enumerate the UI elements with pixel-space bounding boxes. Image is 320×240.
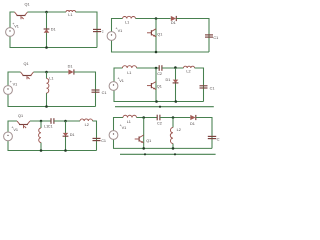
node bottom junction bbox=[45, 105, 48, 108]
wire top rail right + right side bbox=[196, 118, 212, 149]
wire top rail left segment bbox=[10, 12, 15, 28]
wire inductor branch bbox=[40, 121, 42, 151]
node A junction bbox=[40, 120, 43, 123]
label L1 bbox=[127, 120, 131, 124]
capacitor C bbox=[93, 29, 101, 31]
label V1 bbox=[13, 82, 18, 86]
svg-text:V1: V1 bbox=[13, 82, 18, 86]
svg-text:D1: D1 bbox=[190, 122, 195, 126]
label Q1 bbox=[157, 33, 162, 37]
svg-text:D1: D1 bbox=[171, 21, 176, 25]
wire bottom rail bbox=[112, 40, 210, 52]
label + bbox=[120, 123, 123, 127]
label D1 bbox=[51, 28, 56, 32]
wire bottom rail bbox=[8, 94, 96, 106]
label L1 bbox=[127, 71, 131, 75]
label L1 bbox=[68, 13, 72, 17]
wire top rail left segment bbox=[8, 72, 21, 86]
inductor L1 vertical bbox=[47, 79, 49, 94]
wire top rail right + right side bbox=[74, 72, 96, 107]
label D1 bbox=[171, 21, 176, 25]
svg-text:Q1: Q1 bbox=[157, 84, 162, 88]
label V1 bbox=[122, 126, 127, 130]
node A junction bbox=[155, 67, 158, 70]
node B junction bbox=[64, 120, 67, 123]
capacitor C1 output bbox=[93, 138, 101, 140]
label C1 bbox=[48, 125, 53, 129]
label + bbox=[12, 22, 15, 26]
label L2 bbox=[177, 128, 181, 132]
label D1 bbox=[190, 122, 195, 126]
svg-text:Q1: Q1 bbox=[24, 62, 29, 66]
wire top rail mid bbox=[34, 71, 69, 73]
svg-text:L2: L2 bbox=[177, 128, 181, 132]
wire lower bus bbox=[120, 153, 216, 155]
wire diode branch bbox=[65, 121, 67, 151]
label + bbox=[10, 80, 13, 84]
capacitor C1 bbox=[92, 90, 100, 92]
svg-text:Q1: Q1 bbox=[146, 139, 151, 143]
node switch junction bbox=[45, 11, 48, 14]
diode D1 bbox=[44, 29, 50, 33]
transistor Q1 bbox=[17, 121, 30, 128]
svg-text:L1: L1 bbox=[125, 21, 129, 25]
svg-text:L2: L2 bbox=[186, 69, 190, 73]
voltage source V1 bbox=[4, 86, 13, 95]
svg-text:V1: V1 bbox=[13, 128, 18, 132]
inductor L1 bbox=[123, 16, 136, 18]
wire diode branch bbox=[175, 68, 177, 102]
inductor L1 bbox=[123, 66, 137, 68]
wire diode branch bbox=[46, 12, 48, 48]
svg-text:L1: L1 bbox=[127, 120, 131, 124]
label V1 bbox=[118, 29, 123, 33]
wire left side bbox=[114, 68, 123, 82]
inductor L1 bbox=[123, 115, 137, 117]
label C1 bbox=[217, 138, 222, 142]
label L2 bbox=[85, 123, 89, 127]
node switch junction bbox=[142, 116, 145, 119]
wire inductor branch bbox=[46, 72, 48, 107]
capacitor C2 bbox=[157, 115, 160, 121]
capacitor C1 bbox=[200, 86, 208, 88]
label L1 bbox=[125, 21, 129, 25]
svg-text:c: c bbox=[102, 29, 104, 33]
label C1 bbox=[213, 36, 218, 40]
svg-text:V1: V1 bbox=[14, 24, 19, 28]
label C2 bbox=[157, 122, 162, 126]
svg-text:C1: C1 bbox=[48, 125, 53, 129]
inductor L1 bbox=[66, 10, 76, 12]
label D1 bbox=[68, 64, 73, 68]
svg-text:D1: D1 bbox=[166, 78, 171, 82]
wire top rail right + right side bbox=[76, 12, 98, 48]
inductor L2 bbox=[184, 66, 195, 68]
node lower bus junction 2 bbox=[174, 153, 176, 155]
label c bbox=[102, 29, 104, 33]
node bottom junction bbox=[155, 51, 158, 54]
wire bottom rail bbox=[114, 139, 213, 148]
diode D1 bbox=[63, 133, 69, 136]
svg-text:V1: V1 bbox=[118, 29, 123, 33]
node bottom junction L2 bbox=[172, 147, 175, 150]
diode D1 bbox=[173, 80, 179, 83]
label Q1 bbox=[18, 114, 23, 118]
diode D1 bbox=[171, 16, 177, 21]
label C1 bbox=[210, 87, 215, 91]
capacitor C2 bbox=[159, 65, 162, 71]
svg-text:C1: C1 bbox=[210, 87, 215, 91]
wire top rail mid bbox=[28, 11, 67, 13]
voltage source V1 bbox=[109, 131, 118, 140]
svg-text:L2: L2 bbox=[85, 123, 89, 127]
svg-text:V1: V1 bbox=[122, 126, 127, 130]
wire bottom rail bbox=[8, 141, 97, 151]
svg-text:Q1: Q1 bbox=[25, 2, 30, 6]
node bottom junction A bbox=[40, 149, 43, 152]
wire top rail after C2 bbox=[160, 117, 190, 119]
node bottom junction bbox=[45, 46, 48, 49]
label C2 bbox=[157, 72, 162, 76]
label Q1 bbox=[24, 62, 29, 66]
label + bbox=[11, 126, 14, 130]
wire top rail right + right side bbox=[176, 19, 209, 53]
label Q1 bbox=[146, 139, 151, 143]
wire left side bbox=[112, 19, 123, 32]
node inductor junction bbox=[45, 71, 48, 74]
voltage source V1 bbox=[4, 132, 13, 141]
capacitor C1 bbox=[205, 35, 213, 37]
svg-text:D1: D1 bbox=[68, 64, 73, 68]
label V1 bbox=[14, 24, 19, 28]
svg-text:C2: C2 bbox=[157, 122, 162, 126]
svg-text:L1: L1 bbox=[127, 71, 131, 75]
node bottom junction B bbox=[175, 100, 178, 103]
wire top rail to node B bbox=[54, 120, 80, 122]
node bottom junction Q1 bbox=[142, 147, 145, 150]
wire transistor branch bbox=[155, 19, 157, 53]
wire top rail mid bbox=[137, 67, 160, 69]
diode D1 bbox=[190, 115, 196, 120]
wire transistor branch bbox=[155, 68, 157, 102]
svg-text:C1: C1 bbox=[102, 91, 107, 95]
wire left side bbox=[114, 118, 124, 131]
transistor Q1 bbox=[147, 82, 156, 90]
wire top rail mid bbox=[137, 117, 158, 119]
transistor Q1 bbox=[15, 12, 28, 19]
wire top rail right + right side bbox=[195, 68, 204, 102]
wire L2 branch bbox=[172, 118, 174, 149]
svg-text:D1: D1 bbox=[70, 133, 75, 137]
inductor L2 vertical bbox=[170, 128, 173, 144]
label D1 bbox=[70, 133, 75, 137]
wire top rail to node A bbox=[30, 120, 51, 122]
wire lower bus bbox=[115, 106, 214, 108]
label + bbox=[115, 26, 118, 30]
label D1 bbox=[166, 78, 171, 82]
transistor Q1 bbox=[135, 135, 144, 143]
svg-text:V1: V1 bbox=[119, 79, 124, 83]
wire bottom rail bbox=[10, 36, 97, 47]
wire bottom rail bbox=[114, 90, 204, 101]
node bottom junction B bbox=[64, 149, 67, 152]
svg-text:D1: D1 bbox=[51, 28, 56, 32]
svg-text:C1: C1 bbox=[217, 138, 220, 142]
label C1 bbox=[101, 139, 106, 143]
wire top rail mid bbox=[136, 18, 171, 20]
label L1 bbox=[49, 77, 53, 81]
svg-text:L1: L1 bbox=[49, 77, 53, 81]
label L2 bbox=[186, 69, 190, 73]
svg-text:C1: C1 bbox=[213, 36, 218, 40]
svg-text:C2: C2 bbox=[157, 72, 162, 76]
label L1 bbox=[44, 125, 48, 129]
node switch junction bbox=[155, 17, 158, 20]
wire top rail left segment bbox=[8, 121, 17, 132]
node B junction bbox=[174, 66, 177, 69]
voltage source V1 bbox=[109, 82, 118, 91]
label V1 bbox=[13, 128, 18, 132]
transistor Q1 bbox=[147, 29, 156, 37]
svg-text:L1: L1 bbox=[68, 13, 72, 17]
label C1 bbox=[102, 91, 107, 95]
node lower bus junction bbox=[159, 106, 161, 108]
svg-text:C1: C1 bbox=[101, 139, 106, 143]
label + bbox=[117, 77, 120, 81]
capacitor C1 bbox=[208, 136, 216, 138]
inductor L2 bbox=[80, 119, 93, 121]
transistor Q1 bbox=[21, 72, 34, 79]
wire top rail after C2 bbox=[162, 67, 184, 69]
wire top rail right + right side bbox=[93, 121, 97, 151]
node bottom junction A bbox=[155, 100, 158, 103]
inductor L1 vertical bbox=[39, 128, 41, 143]
node lower bus junction 1 bbox=[144, 153, 146, 155]
voltage source V1 bbox=[107, 32, 116, 41]
label Q1 bbox=[157, 84, 162, 88]
label V1 bbox=[119, 79, 124, 83]
label Q1 bbox=[25, 2, 30, 6]
wire transistor branch bbox=[143, 118, 145, 149]
diode D1 bbox=[68, 69, 74, 74]
capacitor C1 series bbox=[51, 118, 54, 124]
voltage source V1 bbox=[6, 28, 15, 37]
svg-text:Q1: Q1 bbox=[18, 114, 23, 118]
svg-text:Q1: Q1 bbox=[157, 33, 162, 37]
node L2 junction bbox=[172, 116, 175, 119]
